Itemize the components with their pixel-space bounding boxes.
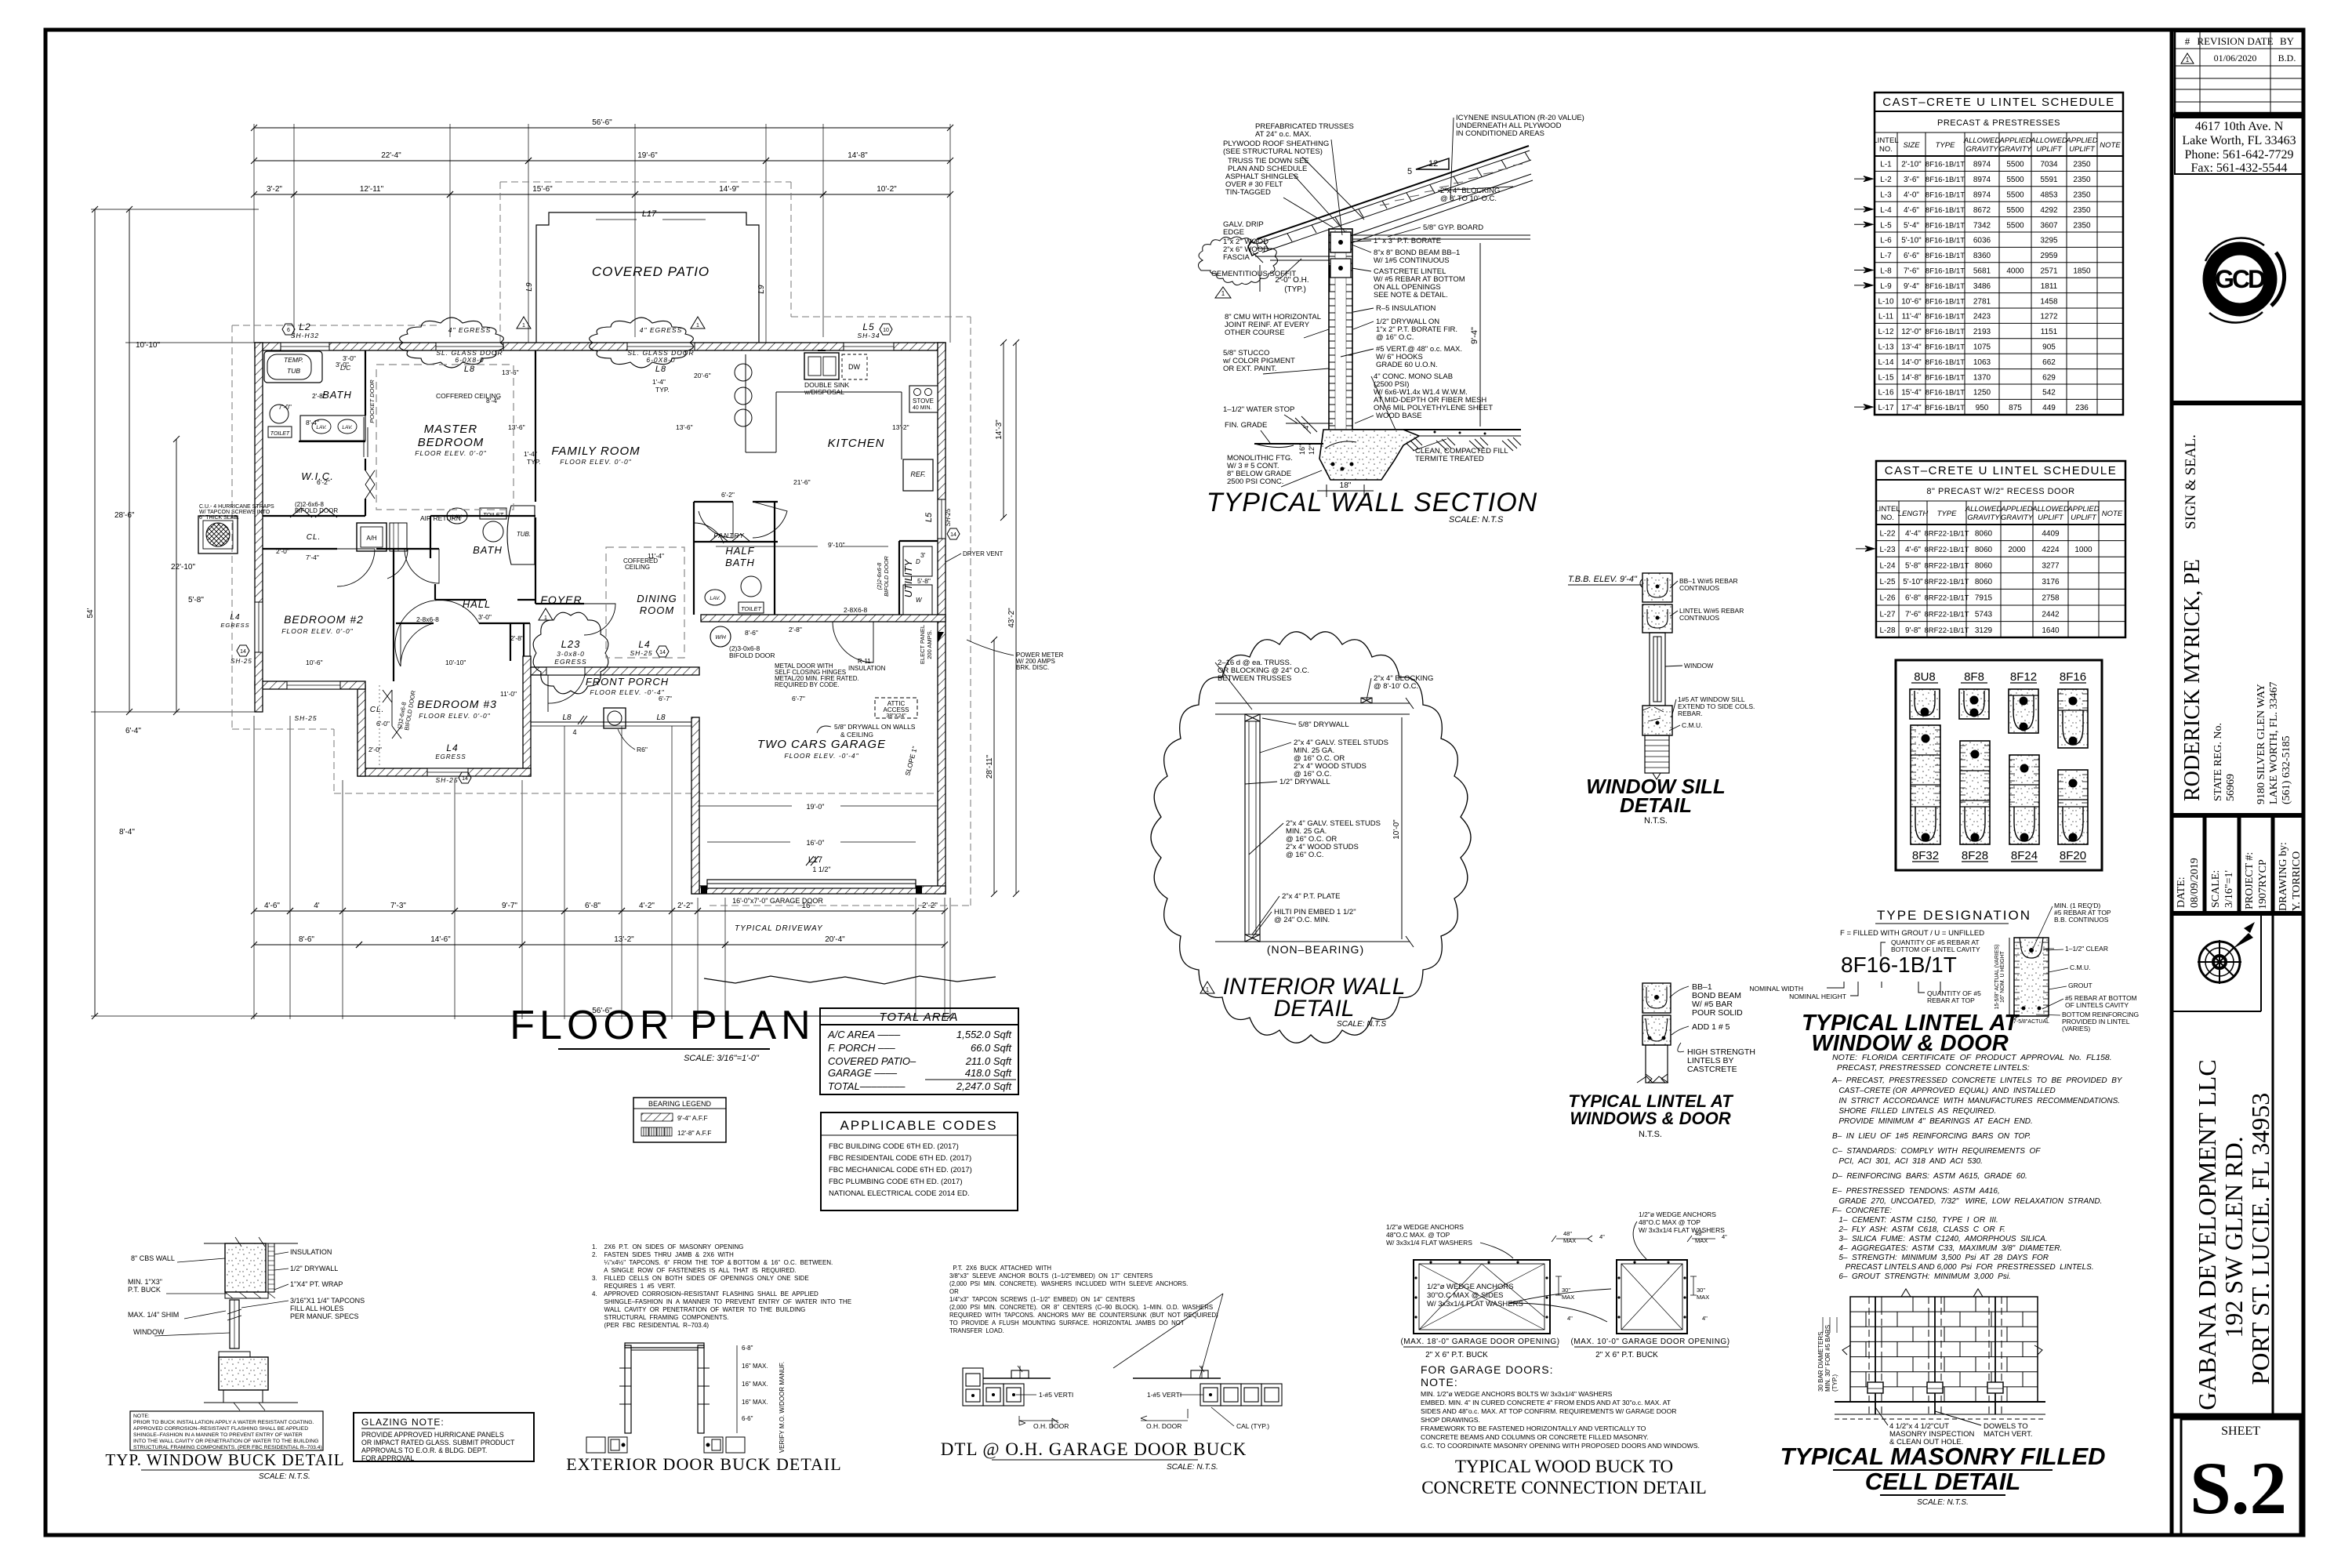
svg-text:CONCRETE BEAMS AND COLUMNS: CONCRETE BEAMS AND COLUMNS OR CONCRETE F… [1421,1433,1649,1441]
svg-text:418.0 Sqft: 418.0 Sqft [965,1067,1013,1079]
svg-text:L-24: L-24 [1879,562,1895,571]
svg-text:ALLOWED: ALLOWED [1965,505,2002,514]
svg-text:MATCH VERT.: MATCH VERT. [1984,1430,2032,1439]
svg-text:3607: 3607 [2040,221,2058,230]
svg-text:12'-0": 12'-0" [1901,328,1922,336]
svg-text:66.0 Sqft: 66.0 Sqft [971,1042,1012,1054]
svg-text:8F16-1B/1T: 8F16-1B/1T [1926,282,1965,291]
svg-text:FOYER: FOYER [540,593,582,606]
svg-text:L-15: L-15 [1878,373,1893,382]
svg-text:L-25: L-25 [1879,578,1895,586]
bond beam BB-1 [1330,232,1351,252]
svg-text:8974: 8974 [1973,191,1991,200]
svg-text:ACCESS: ACCESS [884,706,909,713]
svg-text:LINTEL: LINTEL [1873,136,1898,145]
svg-text:DRYER VENT: DRYER VENT [963,550,1004,557]
svg-text:1: 1 [2186,56,2190,64]
bath2 fixtures [447,508,467,524]
svg-text:6-8": 6-8" [742,1345,753,1352]
svg-text:14'-6": 14'-6" [430,935,451,944]
pendant circles [735,364,752,381]
svg-text:NO.: NO. [1881,514,1894,522]
WH [710,626,731,647]
svg-text:w/DISPOSAL: w/DISPOSAL [804,388,844,396]
svg-text:T.B.B. ELEV. 9'-4": T.B.B. ELEV. 9'-4" [1568,575,1638,584]
svg-text:STOVE: STOVE [913,397,934,405]
svg-text:L5: L5 [924,512,934,522]
svg-text:SCALE: N.T.S.: SCALE: N.T.S. [259,1472,310,1481]
svg-text:L4: L4 [230,613,240,622]
svg-text:L5: L5 [862,321,874,332]
BEARING LEGEND [633,1098,726,1142]
svg-text:6'-6": 6'-6" [1904,252,1919,260]
svg-text:BATH: BATH [322,389,352,401]
svg-text:SH-25: SH-25 [435,776,458,784]
top/bottom plates [1245,714,1260,721]
svg-text:3': 3' [920,551,926,559]
svg-text:8RF22-1B/1T: 8RF22-1B/1T [1924,610,1969,619]
covered patio slab [536,212,759,343]
svg-text:UPLIFT: UPLIFT [2038,514,2064,522]
wall bedroom3 left [358,685,365,776]
svg-text:1" x 3" P.T. BORATE: 1" x 3" P.T. BORATE [1374,237,1441,245]
svg-text:8F16-1B/1T: 8F16-1B/1T [1926,389,1965,397]
svg-text:C.U.- 4 HURRICANE STRAPS: C.U.- 4 HURRICANE STRAPS [199,504,274,510]
garage door opening [707,880,916,888]
svg-text:(SEE STRUCTURAL NOTES): (SEE STRUCTURAL NOTES) [1223,147,1323,156]
svg-text:7'-4": 7'-4" [306,554,319,561]
svg-text:MAX: MAX [1563,1237,1576,1244]
svg-text:TERMITE TREATED: TERMITE TREATED [1415,455,1484,463]
svg-text:B.D.: B.D. [2278,53,2296,64]
wall garage left [691,717,699,894]
svg-text:6'-8": 6'-8" [1905,594,1921,603]
svg-text:F– CONCRETE:: F– CONCRETE: [1832,1207,1892,1215]
svg-text:4– AGGREGATES: ASTM C33, M: 4– AGGREGATES: ASTM C33, MAXIMUM 3/8" DI… [1832,1244,2062,1253]
svg-text:2350: 2350 [2073,161,2091,169]
svg-text:SEE NOTE & DETAIL.: SEE NOTE & DETAIL. [1374,291,1448,299]
svg-text:TYP.: TYP. [655,386,670,394]
svg-text:TYPE: TYPE [1937,510,1957,518]
svg-text:FRONT PORCH: FRONT PORCH [586,676,669,688]
top dimension tier 3 [254,194,294,195]
svg-text:9'-4": 9'-4" [1904,282,1919,291]
svg-text:13'-6": 13'-6" [508,423,525,431]
wall left exterior [255,343,263,712]
svg-text:CONTINUOS: CONTINUOS [1679,614,1719,622]
svg-text:ALLOWED: ALLOWED [2031,505,2069,514]
typical lintel at windows & door column [1637,983,1671,1083]
svg-text:L-13: L-13 [1878,343,1893,352]
svg-text:ALLOWED: ALLOWED [2030,136,2067,145]
svg-text:10'-2": 10'-2" [877,185,897,194]
svg-text:6'-4": 6'-4" [125,727,141,735]
window sill detail [1642,573,1672,779]
svg-text:7342: 7342 [1973,221,1991,230]
svg-text:GRADE 60 U.O.N.: GRADE 60 U.O.N. [1376,361,1438,369]
svg-text:2'-10": 2'-10" [1901,161,1922,169]
svg-text:38"X24": 38"X24" [886,713,906,719]
svg-text:7'-0": 7'-0" [278,403,292,411]
svg-text:16": 16" [1298,445,1306,455]
svg-text:SH-25: SH-25 [230,658,252,665]
svg-text:11'-4": 11'-4" [1902,313,1922,321]
wall bedroom3 bottom [358,768,531,776]
svg-text:2– FLY ASH: ASTM C618, CL: 2– FLY ASH: ASTM C618, CLASS C OR F. [1832,1225,2005,1234]
svg-text:GARAGE ––––: GARAGE –––– [828,1067,898,1079]
svg-text:PANTRY: PANTRY [713,532,745,539]
svg-text:OR EXT. PAINT.: OR EXT. PAINT. [1223,365,1276,373]
svg-text:30 BAR DIAMETERS: 30 BAR DIAMETERS [1817,1332,1824,1392]
svg-text:MAX: MAX [1695,1237,1708,1244]
svg-text:R-11: R-11 [858,658,871,665]
window openings left/bottom/right [255,602,263,652]
svg-text:F = FILLED WITH GROUT / U = UN: F = FILLED WITH GROUT / U = UNFILLED [1840,929,1984,938]
svg-text:COVERED PATIO: COVERED PATIO [592,264,710,279]
svg-text:2350: 2350 [2073,221,2091,230]
date/scale/project/drawing boxes [2172,813,2303,818]
svg-text:TOILET: TOILET [741,605,763,612]
svg-text:BIFOLD DOOR: BIFOLD DOOR [883,556,890,597]
water stop detail [1286,423,1333,424]
svg-text:8F16-1B/1T: 8F16-1B/1T [1841,953,1957,977]
svg-text:3/8"x3" SLEEVE ANCHOR BOLTS: 3/8"x3" SLEEVE ANCHOR BOLTS (1–1/2"EMBED… [949,1272,1152,1279]
svg-text:7'-6": 7'-6" [1904,267,1919,276]
svg-text:2959: 2959 [2040,252,2058,260]
svg-text:3129: 3129 [1975,626,1993,635]
svg-text:542: 542 [2042,389,2056,397]
svg-text:SCALE: N.T.S.: SCALE: N.T.S. [1167,1463,1218,1472]
svg-text:AIR RETURN: AIR RETURN [420,514,461,522]
svg-text:SCALE: N.T.S: SCALE: N.T.S [1337,1020,1386,1029]
svg-text:CONTINUOS: CONTINUOS [1679,584,1719,592]
warning triangles [517,317,531,328]
svg-text:E– PRESTRESSED TENDONS: AST: E– PRESTRESSED TENDONS: ASTM A416, [1832,1187,2000,1196]
svg-text:13'-6": 13'-6" [502,368,519,376]
hex symbols [282,324,295,335]
svg-text:ADD 1 # 5: ADD 1 # 5 [1692,1022,1730,1032]
svg-text:8F16-1B/1T: 8F16-1B/1T [1926,267,1965,276]
svg-text:WALL CAVITY OR PENETRATION: WALL CAVITY OR PENETRATION OF WATER TO T… [592,1306,805,1313]
svg-text:INSULATION: INSULATION [848,665,886,672]
svg-text:O.H. DOOR: O.H. DOOR [1146,1422,1181,1430]
svg-text:1: 1 [522,323,525,328]
compass logo [2198,922,2255,984]
svg-text:8F16-1B/1T: 8F16-1B/1T [1926,161,1965,169]
svg-text:TOTAL AREA: TOTAL AREA [879,1011,958,1024]
svg-text:4" EGRESS: 4" EGRESS [448,326,492,334]
svg-text:5/8" DRYWALL: 5/8" DRYWALL [1298,720,1349,729]
svg-text:L23: L23 [561,638,581,650]
svg-text:2000: 2000 [2008,546,2026,554]
svg-text:BRK. DISC.: BRK. DISC. [1016,664,1049,671]
typical masonry filled cell detail [1835,1289,2045,1419]
svg-text:G.C. TO COORDINATE MASONRY: G.C. TO COORDINATE MASONRY OPENING WITH … [1421,1442,1700,1450]
GCD logo [2205,238,2285,322]
svg-text:FASCIA: FASCIA [1223,253,1250,262]
svg-text:16" MAX.: 16" MAX. [742,1399,768,1406]
svg-text:BIFOLD DOOR: BIFOLD DOOR [295,507,338,514]
svg-text:950: 950 [1976,404,1989,412]
svg-text:LAV.: LAV. [342,425,352,430]
svg-text:L2: L2 [299,321,310,332]
svg-text:4000: 4000 [2006,267,2024,276]
svg-text:15'-4": 15'-4" [1901,389,1922,397]
svg-text:TYPE DESIGNATION: TYPE DESIGNATION [1877,908,2031,923]
typical wood buck to concrete connection detail [1386,1210,1730,1497]
svg-text:STATE REG. No.: STATE REG. No. [2212,723,2224,801]
svg-text:L-12: L-12 [1878,328,1893,336]
svg-text:CL.: CL. [307,533,321,542]
svg-text:8F16-1B/1T: 8F16-1B/1T [1926,404,1965,412]
svg-text:L-2: L-2 [1880,176,1892,184]
svg-text:L-6: L-6 [1880,237,1892,245]
lintel profile 8F24 [2009,755,2039,862]
svg-text:10'-6": 10'-6" [1901,297,1922,306]
wall front foyer [529,667,699,675]
svg-text:GRAVITY: GRAVITY [2001,514,2034,522]
lintel profile 8U8 [1910,670,1940,719]
svg-text:15'-6": 15'-6" [532,185,553,194]
svg-text:1,552.0 Sqft: 1,552.0 Sqft [956,1029,1012,1040]
svg-text:8974: 8974 [1973,176,1991,184]
svg-text:20'-4": 20'-4" [825,935,845,944]
svg-text:2350: 2350 [2073,191,2091,200]
lintel profile 8F32 [1911,725,1940,862]
top dimension tier 2 [254,160,528,162]
svg-text:17'-4": 17'-4" [1901,404,1922,412]
svg-text:OF LINTELS CAVITY: OF LINTELS CAVITY [2065,1001,2129,1009]
svg-text:2-8x6-8: 2-8x6-8 [416,615,439,623]
svg-text:D– REINFORCING BARS: ASTM: D– REINFORCING BARS: ASTM A615, GRADE 60… [1832,1172,2027,1181]
svg-text:@ 16" O.C.: @ 16" O.C. [1286,851,1323,859]
svg-text:MIN. 1/2"ø WEDGE ANCHORS: MIN. 1/2"ø WEDGE ANCHORS BOLTS W/ 3x3x1/… [1421,1390,1613,1398]
wall top exterior [255,343,946,350]
roof overhang dashed [232,325,944,793]
svg-text:SH-25: SH-25 [630,649,652,657]
svg-text:APPLIED: APPLIED [2065,136,2097,145]
svg-text:L8: L8 [464,365,475,374]
svg-text:APPLICABLE CODES: APPLICABLE CODES [840,1118,997,1133]
svg-text:RODERICK MYRICK, PE: RODERICK MYRICK, PE [2180,559,2205,801]
svg-text:8F20: 8F20 [2060,849,2086,862]
svg-text:8F16-1B/1T: 8F16-1B/1T [1926,252,1965,260]
svg-text:REQUIRED WITH TAPCONS. ANCH: REQUIRED WITH TAPCONS. ANCHORS MAY BE CO… [949,1312,1218,1319]
svg-text:13'-4": 13'-4" [1901,343,1922,352]
svg-text:L-17: L-17 [1878,404,1893,412]
svg-text:8'-4": 8'-4" [119,828,135,837]
svg-text:B– IN LIEU OF 1#5 REINFOR: B– IN LIEU OF 1#5 REINFORCING BARS ON TO… [1832,1132,2031,1141]
svg-text:MAX: MAX [1562,1294,1574,1301]
svg-text:10'-0": 10'-0" [1392,819,1401,840]
svg-text:BIFOLD DOOR: BIFOLD DOOR [729,652,775,659]
svg-text:NOMINAL WIDTH: NOMINAL WIDTH [1749,985,1803,993]
svg-text:(2,000 PSI MIN. CONCRETE).: (2,000 PSI MIN. CONCRETE). OR 8" CENTERS… [949,1304,1213,1311]
svg-text:4'-0": 4'-0" [1904,191,1919,200]
svg-text:48": 48" [1695,1230,1704,1237]
svg-text:2571: 2571 [2040,267,2058,276]
svg-text:6'-8": 6'-8" [585,902,601,910]
svg-text:GROUT: GROUT [2068,982,2092,989]
svg-text:INSULATION: INSULATION [290,1248,332,1256]
svg-text:48"O.C MAX. @ TOP: 48"O.C MAX. @ TOP [1386,1231,1450,1239]
svg-text:48": 48" [1563,1230,1572,1237]
svg-text:8F16-1B/1T: 8F16-1B/1T [1926,191,1965,200]
svg-text:10'-6": 10'-6" [306,659,323,666]
svg-text:5591: 5591 [2040,176,2058,184]
svg-text:5/8" DRYWALL ON WALLS: 5/8" DRYWALL ON WALLS [834,723,916,731]
svg-text:7'-6": 7'-6" [1905,610,1921,619]
svg-text:GRAVITY: GRAVITY [1999,145,2032,154]
svg-text:1458: 1458 [2040,297,2058,306]
svg-text:@ 24" O.C. MIN.: @ 24" O.C. MIN. [1274,916,1330,924]
svg-text:10: 10 [883,328,889,333]
svg-text:8F8: 8F8 [1964,670,1984,684]
svg-text:L-28: L-28 [1879,626,1895,635]
svg-text:SIDES AND 48"o.c. MAX. AT: SIDES AND 48"o.c. MAX. AT TOP CONFIRM. R… [1421,1407,1677,1415]
svg-text:LINTEL: LINTEL [1875,505,1900,514]
svg-text:NOTE:: NOTE: [133,1414,150,1419]
svg-text:8RF22-1B/1T: 8RF22-1B/1T [1924,626,1969,635]
svg-text:PRIOR TO BUCK INSTALLATION: PRIOR TO BUCK INSTALLATION APPLY A WATER… [133,1420,314,1425]
svg-text:8360: 8360 [1973,252,1991,260]
svg-text:APPLIED: APPLIED [2000,505,2032,514]
svg-text:BATH: BATH [473,544,503,556]
svg-text:Y. TORRICO: Y. TORRICO [2291,851,2303,911]
side 30 max dims [1555,1276,1562,1295]
svg-text:4'-6": 4'-6" [1904,206,1919,215]
svg-text:01/06/2020: 01/06/2020 [2214,53,2257,64]
svg-text:4'-6": 4'-6" [264,902,280,910]
svg-text:5500: 5500 [2006,176,2024,184]
svg-text:C.M.U.: C.M.U. [1682,721,1702,729]
svg-text:2,247.0 Sqft: 2,247.0 Sqft [956,1080,1012,1092]
svg-text:APPLIED: APPLIED [2067,505,2099,514]
svg-text:9'-8": 9'-8" [1905,626,1921,635]
svg-text:SCALE: 3/16"=1'-0": SCALE: 3/16"=1'-0" [684,1054,760,1063]
svg-text:8'-4": 8'-4" [306,419,319,426]
svg-text:2500 PSI CONC.: 2500 PSI CONC. [1227,477,1283,486]
svg-text:2" X 6" P.T. BUCK: 2" X 6" P.T. BUCK [1595,1351,1658,1359]
svg-text:AT 24" o.c. MAX.: AT 24" o.c. MAX. [1255,130,1312,139]
svg-text:GRAVITY: GRAVITY [1967,514,2000,522]
svg-text:1370: 1370 [1973,373,1991,382]
svg-text:POUR SOLID: POUR SOLID [1692,1008,1743,1018]
wall garage north [701,615,946,622]
svg-text:EGRESS: EGRESS [220,622,249,629]
svg-text:(TYP.): (TYP.) [1284,285,1306,294]
kitchen fixtures [804,353,839,379]
svg-text:NOTE:: NOTE: [1421,1376,1458,1388]
svg-text:21'-6": 21'-6" [793,478,811,486]
svg-text:28'-6": 28'-6" [114,511,135,520]
svg-text:ROOM: ROOM [640,604,674,616]
svg-text:NATIONAL ELECTRICAL CODE 20: NATIONAL ELECTRICAL CODE 2014 ED. [829,1189,970,1198]
dashed ceiling boxes [376,365,514,510]
footing [1319,430,1419,480]
svg-text:OTHER COURSE: OTHER COURSE [1225,328,1285,337]
svg-text:TOTAL––––––––: TOTAL–––––––– [828,1080,906,1092]
grade line left [1254,443,1323,445]
svg-text:L-4: L-4 [1880,206,1892,215]
air return [390,523,407,551]
svg-text:SH-25: SH-25 [294,714,317,722]
svg-text:5500: 5500 [2006,161,2024,169]
svg-text:1/2"ø WEDGE ANCHORS: 1/2"ø WEDGE ANCHORS [1386,1223,1464,1231]
svg-text:W/ TAPCON SCREWS INTO: W/ TAPCON SCREWS INTO [199,510,270,515]
svg-text:SHEET: SHEET [2221,1425,2260,1438]
svg-text:9'-4" A.F.F: 9'-4" A.F.F [677,1114,708,1122]
wall section roof [1257,146,1533,252]
top dimension tier 1 [254,127,950,129]
svg-text:7034: 7034 [2040,161,2058,169]
svg-text:L-1: L-1 [1880,161,1892,169]
svg-text:14: 14 [659,650,666,655]
svg-text:L-16: L-16 [1878,389,1893,397]
svg-text:FBC PLUMBING CODE 6TH ED.: FBC PLUMBING CODE 6TH ED. (2017) [829,1178,963,1186]
svg-text:1: 1 [696,323,699,328]
svg-text:8F16-1B/1T: 8F16-1B/1T [1926,297,1965,306]
svg-text:6: 6 [287,328,290,333]
svg-text:1: 1 [1206,986,1210,993]
svg-text:D: D [916,558,920,565]
svg-text:3'-6": 3'-6" [1904,176,1919,184]
svg-text:8F16-1B/1T: 8F16-1B/1T [1926,343,1965,352]
svg-text:2423: 2423 [1973,313,1991,321]
svg-text:211.0 Sqft: 211.0 Sqft [965,1055,1013,1067]
svg-text:8F12: 8F12 [2010,670,2037,684]
svg-text:GCD: GCD [2215,265,2265,293]
svg-text:FLOOR ELEV. -0'-4": FLOOR ELEV. -0'-4" [590,688,664,696]
svg-text:MAX. 1/4" SHIM: MAX. 1/4" SHIM [128,1311,179,1319]
AH unit [357,523,387,551]
right dimension lines [1003,343,1004,517]
blocking symbol top right [1361,698,1372,703]
svg-text:EGRESS: EGRESS [554,658,586,666]
svg-text:PROJECT #:: PROJECT #: [2244,852,2256,909]
svg-text:1/2"ø WEDGE ANCHORS: 1/2"ø WEDGE ANCHORS [1639,1210,1716,1218]
svg-text:VERIFY M.O. W/DOOR MANUF.: VERIFY M.O. W/DOOR MANUF. [779,1362,786,1453]
svg-text:8F24: 8F24 [2011,849,2038,862]
svg-text:5'-8": 5'-8" [917,577,931,585]
svg-text:1. 2X6 P.T. ON SIDES OF: 1. 2X6 P.T. ON SIDES OF MASONRY OPENING [592,1243,743,1250]
svg-text:CEMENTITIOUS SOFFIT: CEMENTITIOUS SOFFIT [1211,270,1296,278]
svg-text:1'-4": 1'-4" [652,378,666,386]
lintel cavity cross-section [1994,938,2049,1025]
svg-text:R–5 INSULATION: R–5 INSULATION [1376,304,1436,313]
svg-text:14'-8": 14'-8" [848,151,868,160]
svg-text:13'-2": 13'-2" [892,423,909,431]
svg-text:DETAIL: DETAIL [1620,793,1692,817]
svg-text:BEDROOM #3: BEDROOM #3 [417,698,497,710]
svg-text:OR: OR [949,1288,959,1295]
svg-text:1250: 1250 [1973,389,1991,397]
svg-text:1640: 1640 [2042,626,2060,635]
lintel profile 8F20 [2058,770,2088,862]
svg-text:B.B. CONTINUOS: B.B. CONTINUOS [2054,916,2109,924]
porch edge [531,721,691,723]
svg-text:8F16-1B/1T: 8F16-1B/1T [1926,373,1965,382]
svg-text:FLOOR ELEV. 0'-0": FLOOR ELEV. 0'-0" [281,627,353,635]
svg-text:A/H: A/H [366,535,377,542]
svg-text:(NON–BEARING): (NON–BEARING) [1267,943,1364,956]
svg-text:L4: L4 [446,742,458,753]
svg-text:(2,000 PSI MIN. CONCRETE).: (2,000 PSI MIN. CONCRETE). WASHERS INCLU… [949,1280,1188,1287]
svg-text:1: 1 [1221,290,1225,297]
svg-text:8F16: 8F16 [2060,670,2086,684]
svg-text:FLOOR PLAN: FLOOR PLAN [510,1003,815,1048]
svg-text:6– GROUT STRENGTH: MINIMUM: 6– GROUT STRENGTH: MINIMUM 3,000 Psi. [1832,1272,2011,1281]
